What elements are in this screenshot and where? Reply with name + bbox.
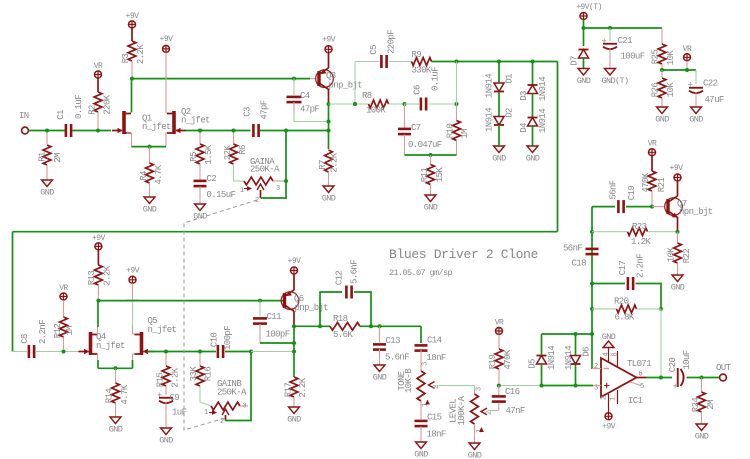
svg-text:+9V: +9V [670, 164, 684, 173]
wire feedback bus y=232 [13, 231, 558, 233]
svg-text:47pF: 47pF [260, 100, 270, 119]
diode D7 1N914 [579, 49, 589, 51]
wire R16 to GAINB [200, 386, 211, 406]
svg-text:TL071: TL071 [627, 359, 651, 369]
svg-text:C12: C12 [335, 271, 345, 286]
ground C2 [195, 204, 206, 211]
resistor R22 [677, 232, 679, 243]
svg-text:2.2nF: 2.2nF [636, 254, 646, 278]
svg-text:GND: GND [695, 432, 709, 442]
supply VR for R19 [496, 328, 503, 335]
wire clipper top row [542, 333, 593, 335]
svg-text:1.2K: 1.2K [631, 237, 651, 247]
resistor R4 [149, 147, 151, 163]
potentiometer TONE 10K-B [417, 371, 425, 401]
svg-text:250K-A: 250K-A [217, 388, 247, 398]
wire output row [646, 377, 672, 379]
wire Q5 gate row [148, 351, 217, 353]
svg-text:C9: C9 [170, 393, 180, 403]
svg-text:R26: R26 [651, 83, 661, 98]
svg-text:R16: R16 [204, 367, 214, 382]
svg-text:R8: R8 [362, 91, 372, 101]
svg-text:2M: 2M [706, 400, 716, 410]
svg-text:220pF: 220pF [387, 30, 397, 54]
supply VR for R12 [60, 293, 67, 300]
ground C22 [691, 107, 702, 114]
svg-text:C14: C14 [427, 336, 442, 346]
svg-text:R2: R2 [88, 105, 98, 115]
wire Q6 node to R18 row [294, 325, 330, 327]
svg-text:GND: GND [159, 436, 173, 446]
svg-text:VR: VR [59, 284, 68, 293]
node OUT [720, 374, 727, 381]
svg-text:100pF: 100pF [266, 330, 290, 340]
svg-text:GND: GND [193, 212, 207, 222]
svg-text:D7: D7 [570, 56, 580, 66]
resistor R17 [290, 377, 298, 397]
svg-text:0.15uF: 0.15uF [207, 190, 236, 200]
svg-text:470K: 470K [503, 349, 513, 369]
svg-text:1: 1 [204, 409, 208, 417]
svg-text:10K-B: 10K-B [404, 368, 414, 393]
resistor R15 [165, 354, 167, 367]
ground (up) above op-amp [603, 341, 614, 348]
svg-text:3: 3 [276, 185, 280, 193]
svg-text:10K: 10K [666, 82, 676, 98]
svg-text:2.2K: 2.2K [298, 377, 308, 397]
svg-text:3: 3 [476, 387, 484, 391]
op-amp pin5 stub [630, 382, 641, 386]
supply +9V for Q6 [291, 267, 298, 274]
svg-text:R22: R22 [682, 249, 692, 264]
wire IN to C1 [29, 130, 65, 132]
resistor R16 [199, 354, 201, 367]
svg-text:2.2K: 2.2K [103, 265, 113, 285]
resistor R20 [592, 308, 617, 310]
svg-text:2.2K: 2.2K [136, 44, 146, 64]
svg-text:8: 8 [612, 353, 620, 357]
svg-text:33K: 33K [189, 366, 199, 382]
capacitor C15 18nF [420, 401, 422, 419]
wire VR divider node [662, 69, 696, 71]
resistor R3 [131, 28, 133, 41]
svg-text:C16: C16 [505, 387, 520, 397]
svg-text:2: 2 [594, 363, 598, 371]
svg-text:R15: R15 [156, 373, 166, 388]
riser x=294 Q6 collector node [293, 325, 295, 377]
resistor R12 [63, 300, 65, 317]
svg-text:0.047uF: 0.047uF [408, 140, 442, 150]
wire TONE wiper to LEVEL top [435, 386, 475, 391]
riser x=592 inverting node [591, 207, 593, 369]
svg-text:C19: C19 [627, 186, 637, 201]
supply VR (divider) [684, 54, 691, 61]
svg-text:GND: GND [468, 451, 482, 459]
svg-text:3: 3 [422, 362, 430, 366]
ground C9 [161, 428, 172, 435]
svg-text:C7: C7 [411, 123, 421, 133]
potentiometer GAINA 250K-A [244, 177, 273, 185]
svg-text:GND: GND [602, 332, 616, 342]
capacitor C1 [65, 124, 68, 137]
svg-text:GND: GND [287, 415, 301, 425]
svg-text:n_jfet: n_jfet [148, 325, 177, 335]
dashed gang coupling GAINA-GAINB [184, 200, 257, 430]
svg-text:R5: R5 [189, 152, 199, 162]
resistor R23 [592, 231, 627, 233]
svg-text:0.1uF: 0.1uF [74, 95, 84, 119]
supply +9V for R3 [129, 21, 136, 28]
svg-text:1N914: 1N914 [538, 77, 548, 101]
capacitor C20 10uF [677, 368, 679, 387]
svg-text:10uF: 10uF [682, 350, 692, 369]
svg-text:GND: GND [322, 194, 336, 204]
svg-text:1M: 1M [65, 326, 75, 336]
svg-text:56nF: 56nF [563, 244, 582, 254]
svg-text:D1: D1 [505, 74, 515, 84]
svg-text:GND: GND [671, 283, 685, 293]
svg-text:npn_bjt: npn_bjt [679, 207, 713, 217]
svg-text:2: 2 [486, 411, 494, 415]
svg-text:C22: C22 [703, 79, 718, 89]
svg-text:R21: R21 [657, 178, 667, 193]
svg-text:pnp_bjt: pnp_bjt [295, 303, 329, 313]
svg-text:R17: R17 [284, 383, 294, 398]
capacitor C7 [404, 104, 406, 129]
resistor R10 [456, 104, 458, 121]
svg-text:220K: 220K [103, 94, 113, 114]
svg-text:1N914: 1N914 [485, 74, 495, 98]
svg-text:R19: R19 [488, 355, 498, 370]
svg-text:100uF: 100uF [621, 52, 645, 62]
svg-text:GND: GND [40, 188, 54, 198]
wire Q3 node to C5 row [355, 62, 369, 105]
resistor R21 [651, 156, 653, 171]
supply +9V for Q2 drain [163, 45, 170, 52]
wire C3 to x328 riser [260, 130, 329, 132]
svg-text:1: 1 [240, 187, 244, 195]
capacitor C12 5.6nF [320, 292, 342, 326]
svg-text:+9V: +9V [322, 36, 336, 45]
svg-text:pnp_bjt: pnp_bjt [329, 81, 363, 91]
wire Q1/Q2 sources [132, 146, 167, 148]
ground D7 [578, 69, 589, 76]
resistor R26 [658, 78, 666, 98]
svg-text:VR: VR [495, 319, 504, 328]
svg-text:1N914: 1N914 [547, 346, 557, 370]
op-amp pin6 output stub [637, 377, 647, 379]
wire feedback bus right riser x=557.5 [557, 62, 559, 232]
svg-text:330K: 330K [412, 66, 432, 76]
svg-text:47uF: 47uF [705, 95, 724, 105]
ground R7 [323, 186, 334, 193]
svg-text:R4: R4 [139, 171, 149, 181]
svg-text:47pF: 47pF [300, 105, 319, 115]
svg-text:2: 2 [255, 197, 259, 205]
svg-text:6.8K: 6.8K [615, 313, 635, 323]
svg-text:GND: GND [109, 425, 123, 435]
resistor R7 [325, 150, 333, 172]
wire R9 to limiter row [432, 61, 558, 63]
svg-text:1N914: 1N914 [485, 108, 495, 132]
svg-text:C6: C6 [413, 85, 423, 95]
svg-text:VR: VR [683, 45, 692, 54]
resistor R11 [430, 155, 432, 165]
svg-text:GND: GND [373, 373, 387, 383]
svg-text:VR: VR [648, 140, 657, 149]
svg-text:R3: R3 [121, 54, 131, 64]
svg-text:R23: R23 [632, 222, 647, 232]
svg-text:OUT: OUT [716, 363, 732, 373]
svg-text:n_jfet: n_jfet [96, 341, 125, 351]
svg-text:C5: C5 [369, 45, 379, 55]
svg-text:10K: 10K [667, 247, 677, 263]
svg-text:D2: D2 [505, 108, 515, 118]
ground R11 [425, 195, 436, 202]
svg-text:15K: 15K [435, 167, 445, 183]
svg-text:C2: C2 [207, 174, 217, 184]
svg-text:+: + [157, 391, 162, 401]
resistor R1 [46, 133, 48, 145]
svg-text:C17: C17 [618, 261, 628, 276]
svg-text:0.1uF: 0.1uF [431, 67, 441, 91]
supply +9V for Q5 [129, 276, 136, 283]
svg-text:4.7K: 4.7K [154, 164, 164, 184]
svg-text:2.2K: 2.2K [330, 152, 340, 172]
ground R1 [42, 180, 53, 187]
transistor Q4 n_jfet [89, 332, 93, 355]
capacitor C2 [194, 180, 207, 183]
svg-text:+: + [602, 37, 607, 47]
svg-text:D4: D4 [519, 123, 529, 133]
op-amp pin2 stub [592, 368, 601, 370]
resistor R8 [369, 100, 389, 108]
ground D4 [527, 146, 538, 153]
svg-text:GND: GND [143, 205, 157, 215]
riser R9/C6 node [456, 62, 458, 105]
svg-text:10K: 10K [666, 50, 676, 66]
svg-text:R13: R13 [87, 271, 97, 286]
wire R20/C17 node to output [660, 309, 662, 378]
resistor R18 [330, 322, 360, 330]
svg-text:18nF: 18nF [427, 353, 446, 363]
wire Q4/Q5 sources [98, 367, 133, 369]
wire Q4 drain node to Q6 base [98, 300, 283, 302]
resistor R5 [199, 133, 201, 145]
svg-text:C8: C8 [20, 334, 30, 344]
svg-text:C20: C20 [668, 358, 678, 373]
svg-text:4.7K: 4.7K [120, 384, 130, 404]
capacitor C8 2.2nF [13, 351, 28, 353]
svg-text:GND(T): GND(T) [601, 76, 628, 86]
svg-text:+9V: +9V [126, 266, 140, 275]
riser x=328.5 Q3 collector node [328, 104, 330, 150]
op-amp power pins bottom [608, 394, 610, 413]
resistor R2 [97, 78, 99, 92]
svg-text:C18: C18 [572, 259, 587, 269]
svg-text:47nF: 47nF [506, 406, 525, 416]
svg-text:1M: 1M [460, 129, 470, 139]
svg-text:+9V: +9V [288, 257, 302, 266]
wire C7/R10/R11 bottom row [405, 154, 457, 156]
svg-text:D3: D3 [519, 91, 529, 101]
svg-text:R18: R18 [333, 314, 348, 324]
transistor Q1 n_jfet [131, 79, 133, 113]
ground R24 [696, 424, 707, 431]
svg-text:C1: C1 [56, 110, 66, 120]
diode D2 1N914 [498, 92, 500, 117]
svg-text:GND: GND [655, 115, 669, 125]
supply +9V for Q7 [674, 174, 681, 181]
diode D1 1N914 [497, 60, 501, 64]
supply VR for R2 [95, 71, 102, 78]
potentiometer LEVEL 100K-A [474, 390, 476, 394]
diode D3 1N914 [531, 60, 535, 64]
resistor R13 [97, 250, 99, 265]
capacitor C4 [292, 77, 296, 81]
svg-text:R1: R1 [38, 152, 48, 162]
capacitor C14 18nF [420, 326, 422, 343]
svg-text:R7: R7 [318, 160, 328, 170]
potentiometer GAINB 250K-A [211, 402, 240, 410]
wire GAINA wiper to pin3 riser [261, 131, 287, 198]
ground R26 [657, 107, 668, 114]
wire C1 to Q1 gate [73, 130, 112, 132]
diode D5 1N914 [537, 355, 547, 357]
svg-text:GND: GND [577, 76, 591, 86]
svg-text:C4: C4 [300, 91, 310, 101]
svg-text:5.6nF: 5.6nF [350, 260, 360, 284]
svg-text:22K: 22K [223, 145, 233, 161]
diode D4 1N914 [532, 94, 534, 118]
svg-text:5: 5 [640, 383, 644, 391]
svg-text:R24: R24 [691, 398, 701, 413]
capacitor C5 [355, 61, 379, 63]
wire C11 bottom to Q6 collector node [260, 342, 294, 344]
svg-text:R12: R12 [53, 324, 63, 339]
transistor Q3 pnp_bjt [310, 78, 317, 80]
capacitor C11 100pF [258, 299, 262, 303]
capacitor C16 47nF [498, 386, 500, 396]
resistor R14 [115, 368, 117, 383]
svg-text:R11: R11 [420, 168, 430, 183]
wire GAINB wiper/pin3 to gate row [226, 352, 252, 421]
capacitor C6 [405, 103, 420, 105]
svg-text:GND: GND [414, 450, 428, 459]
svg-text:1: 1 [610, 397, 618, 401]
ground D2 [494, 146, 505, 153]
svg-text:+9V: +9V [602, 423, 616, 432]
svg-text:+9V: +9V [160, 35, 174, 44]
capacitor C13 5.6nF [379, 326, 381, 342]
svg-text:GND: GND [689, 115, 703, 125]
svg-text:n_jfet: n_jfet [181, 116, 210, 126]
capacitor C9 1uF [165, 386, 167, 395]
svg-text:1N914: 1N914 [564, 346, 574, 370]
capacitor C21 100uF [608, 26, 612, 30]
capacitor C3 [252, 124, 255, 137]
svg-text:1.5K: 1.5K [204, 144, 214, 164]
wire feedback bus left riser x=12.5 [12, 232, 14, 352]
ground C15 [416, 442, 427, 449]
svg-text:2.2K: 2.2K [171, 367, 181, 387]
svg-text:R25: R25 [651, 50, 661, 65]
svg-text:IN: IN [19, 111, 29, 121]
svg-text:56nF: 56nF [609, 180, 619, 199]
svg-text:n_jfet: n_jfet [142, 122, 171, 132]
svg-text:R10: R10 [446, 124, 456, 139]
svg-text:1N914: 1N914 [538, 109, 548, 133]
svg-text:470K: 470K [641, 172, 651, 192]
svg-text:D6: D6 [582, 347, 592, 357]
svg-text:VR: VR [94, 62, 103, 71]
svg-text:2: 2 [601, 396, 609, 400]
svg-text:5.6K: 5.6K [333, 330, 353, 340]
svg-text:R9: R9 [412, 50, 422, 60]
svg-text:2M: 2M [53, 153, 63, 163]
svg-text:+: + [673, 382, 678, 392]
svg-text:C21: C21 [618, 36, 633, 46]
svg-text:+9V: +9V [126, 12, 140, 21]
svg-text:250K-A: 250K-A [250, 165, 280, 175]
svg-text:GND: GND [424, 203, 438, 213]
svg-text:+9V(T): +9V(T) [576, 3, 602, 12]
svg-text:5.6nF: 5.6nF [385, 353, 409, 363]
wire R19/C16 node to clipper row [499, 385, 542, 387]
svg-text:Blues Driver 2 Clone: Blues Driver 2 Clone [389, 247, 538, 262]
svg-text:100pF: 100pF [223, 326, 233, 350]
supply +9V for Q3 [325, 46, 332, 53]
resistor R6 [233, 133, 235, 145]
wire R3 to bus y=78.6 [132, 78, 310, 80]
svg-text:R6: R6 [238, 145, 248, 155]
svg-text:C11: C11 [267, 312, 282, 322]
svg-text:4: 4 [603, 353, 611, 357]
op-amp pin3 stub [593, 385, 601, 387]
wire R6 to GAINA [234, 164, 245, 181]
svg-text:C10: C10 [210, 333, 220, 348]
svg-text:C15: C15 [427, 413, 442, 423]
svg-text:C3: C3 [243, 107, 253, 117]
diode D6 1N914 [571, 356, 581, 365]
svg-text:6: 6 [639, 371, 643, 379]
capacitor C17 2.2nF [592, 283, 625, 285]
ground R14 [110, 417, 121, 424]
ground R22 [672, 275, 683, 282]
svg-text:+: + [688, 81, 693, 91]
svg-text:100K: 100K [366, 106, 386, 116]
capacitor C22 47uF [695, 70, 697, 84]
svg-text:IC1: IC1 [628, 396, 643, 406]
transistor Q6 pnp_bjt [281, 292, 299, 310]
ground C13 [374, 365, 385, 372]
svg-text:2.2nF: 2.2nF [38, 320, 48, 344]
svg-text:Q3: Q3 [326, 71, 336, 81]
op-amp power pins top [608, 348, 610, 362]
resistor R25 [658, 44, 666, 64]
supply +9V op-amp [605, 413, 612, 420]
resistor R24 [701, 378, 703, 393]
resistor R9 [412, 58, 432, 66]
wire +9V(T) rail [583, 20, 585, 47]
transistor Q5 n_jfet (mirrored) [132, 299, 134, 326]
svg-text:100K-A: 100K-A [457, 395, 467, 425]
ground LEVEL [469, 443, 480, 450]
capacitor C10 100pF [217, 345, 220, 358]
op-amp IC1 TL071 [601, 358, 637, 397]
svg-text:R14: R14 [105, 389, 115, 404]
svg-text:+9V: +9V [92, 234, 106, 243]
